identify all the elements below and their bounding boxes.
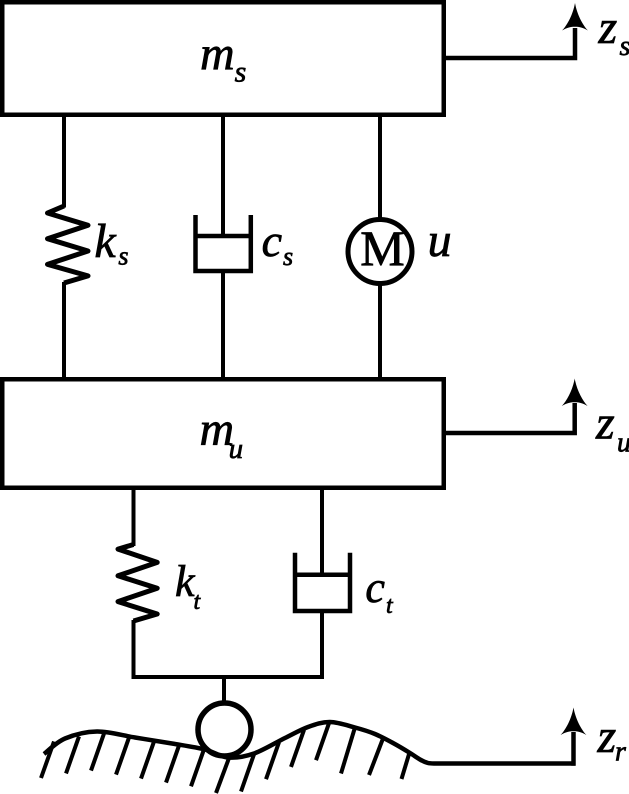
road hatching [41,723,410,793]
wire from m_s to damper c_s [221,115,225,237]
actuator M [348,214,452,284]
svg-text:r: r [615,737,626,768]
wire from damper c_t to wheel bar [320,611,324,679]
damper c_t [293,553,394,619]
node z_r arrow [561,708,626,768]
road surface [44,722,576,764]
wire from spring k_t to wheel bar [132,620,136,679]
wire from actuator to m_u [378,283,382,379]
svg-text:c: c [262,215,282,266]
wire from damper c_s to m_u [221,271,225,379]
svg-text:z: z [598,1,618,54]
svg-text:s: s [118,242,128,271]
svg-text:m: m [200,28,235,81]
svg-text:z: z [595,396,615,449]
svg-text:z: z [597,710,617,763]
wire wheel stem [222,677,226,704]
mass block m_u [2,379,444,488]
svg-text:u: u [229,433,244,465]
svg-text:u: u [617,428,629,459]
damper c_s [194,215,294,271]
wire from m_s to actuator [378,115,382,222]
wire from m_u to spring k_t [132,488,136,546]
svg-text:t: t [386,593,394,619]
spring k_s [48,206,129,283]
svg-text:k: k [94,215,117,268]
svg-text:s: s [235,56,247,89]
svg-text:t: t [194,589,202,615]
wheel bar [132,675,325,679]
wire from m_u to damper c_t [320,488,324,575]
svg-text:u: u [428,214,452,267]
spring k_t [118,545,202,622]
svg-text:M: M [360,220,404,276]
node z_s arrow [444,1,629,62]
svg-text:c: c [365,563,385,612]
wire from spring k_s to m_u [62,282,66,379]
svg-text:s: s [283,242,293,271]
node z_u arrow [444,379,629,459]
mass block m_s [2,2,444,115]
wire from m_s to spring k_s [62,115,66,208]
wheel [198,703,251,756]
svg-text:s: s [620,31,629,62]
